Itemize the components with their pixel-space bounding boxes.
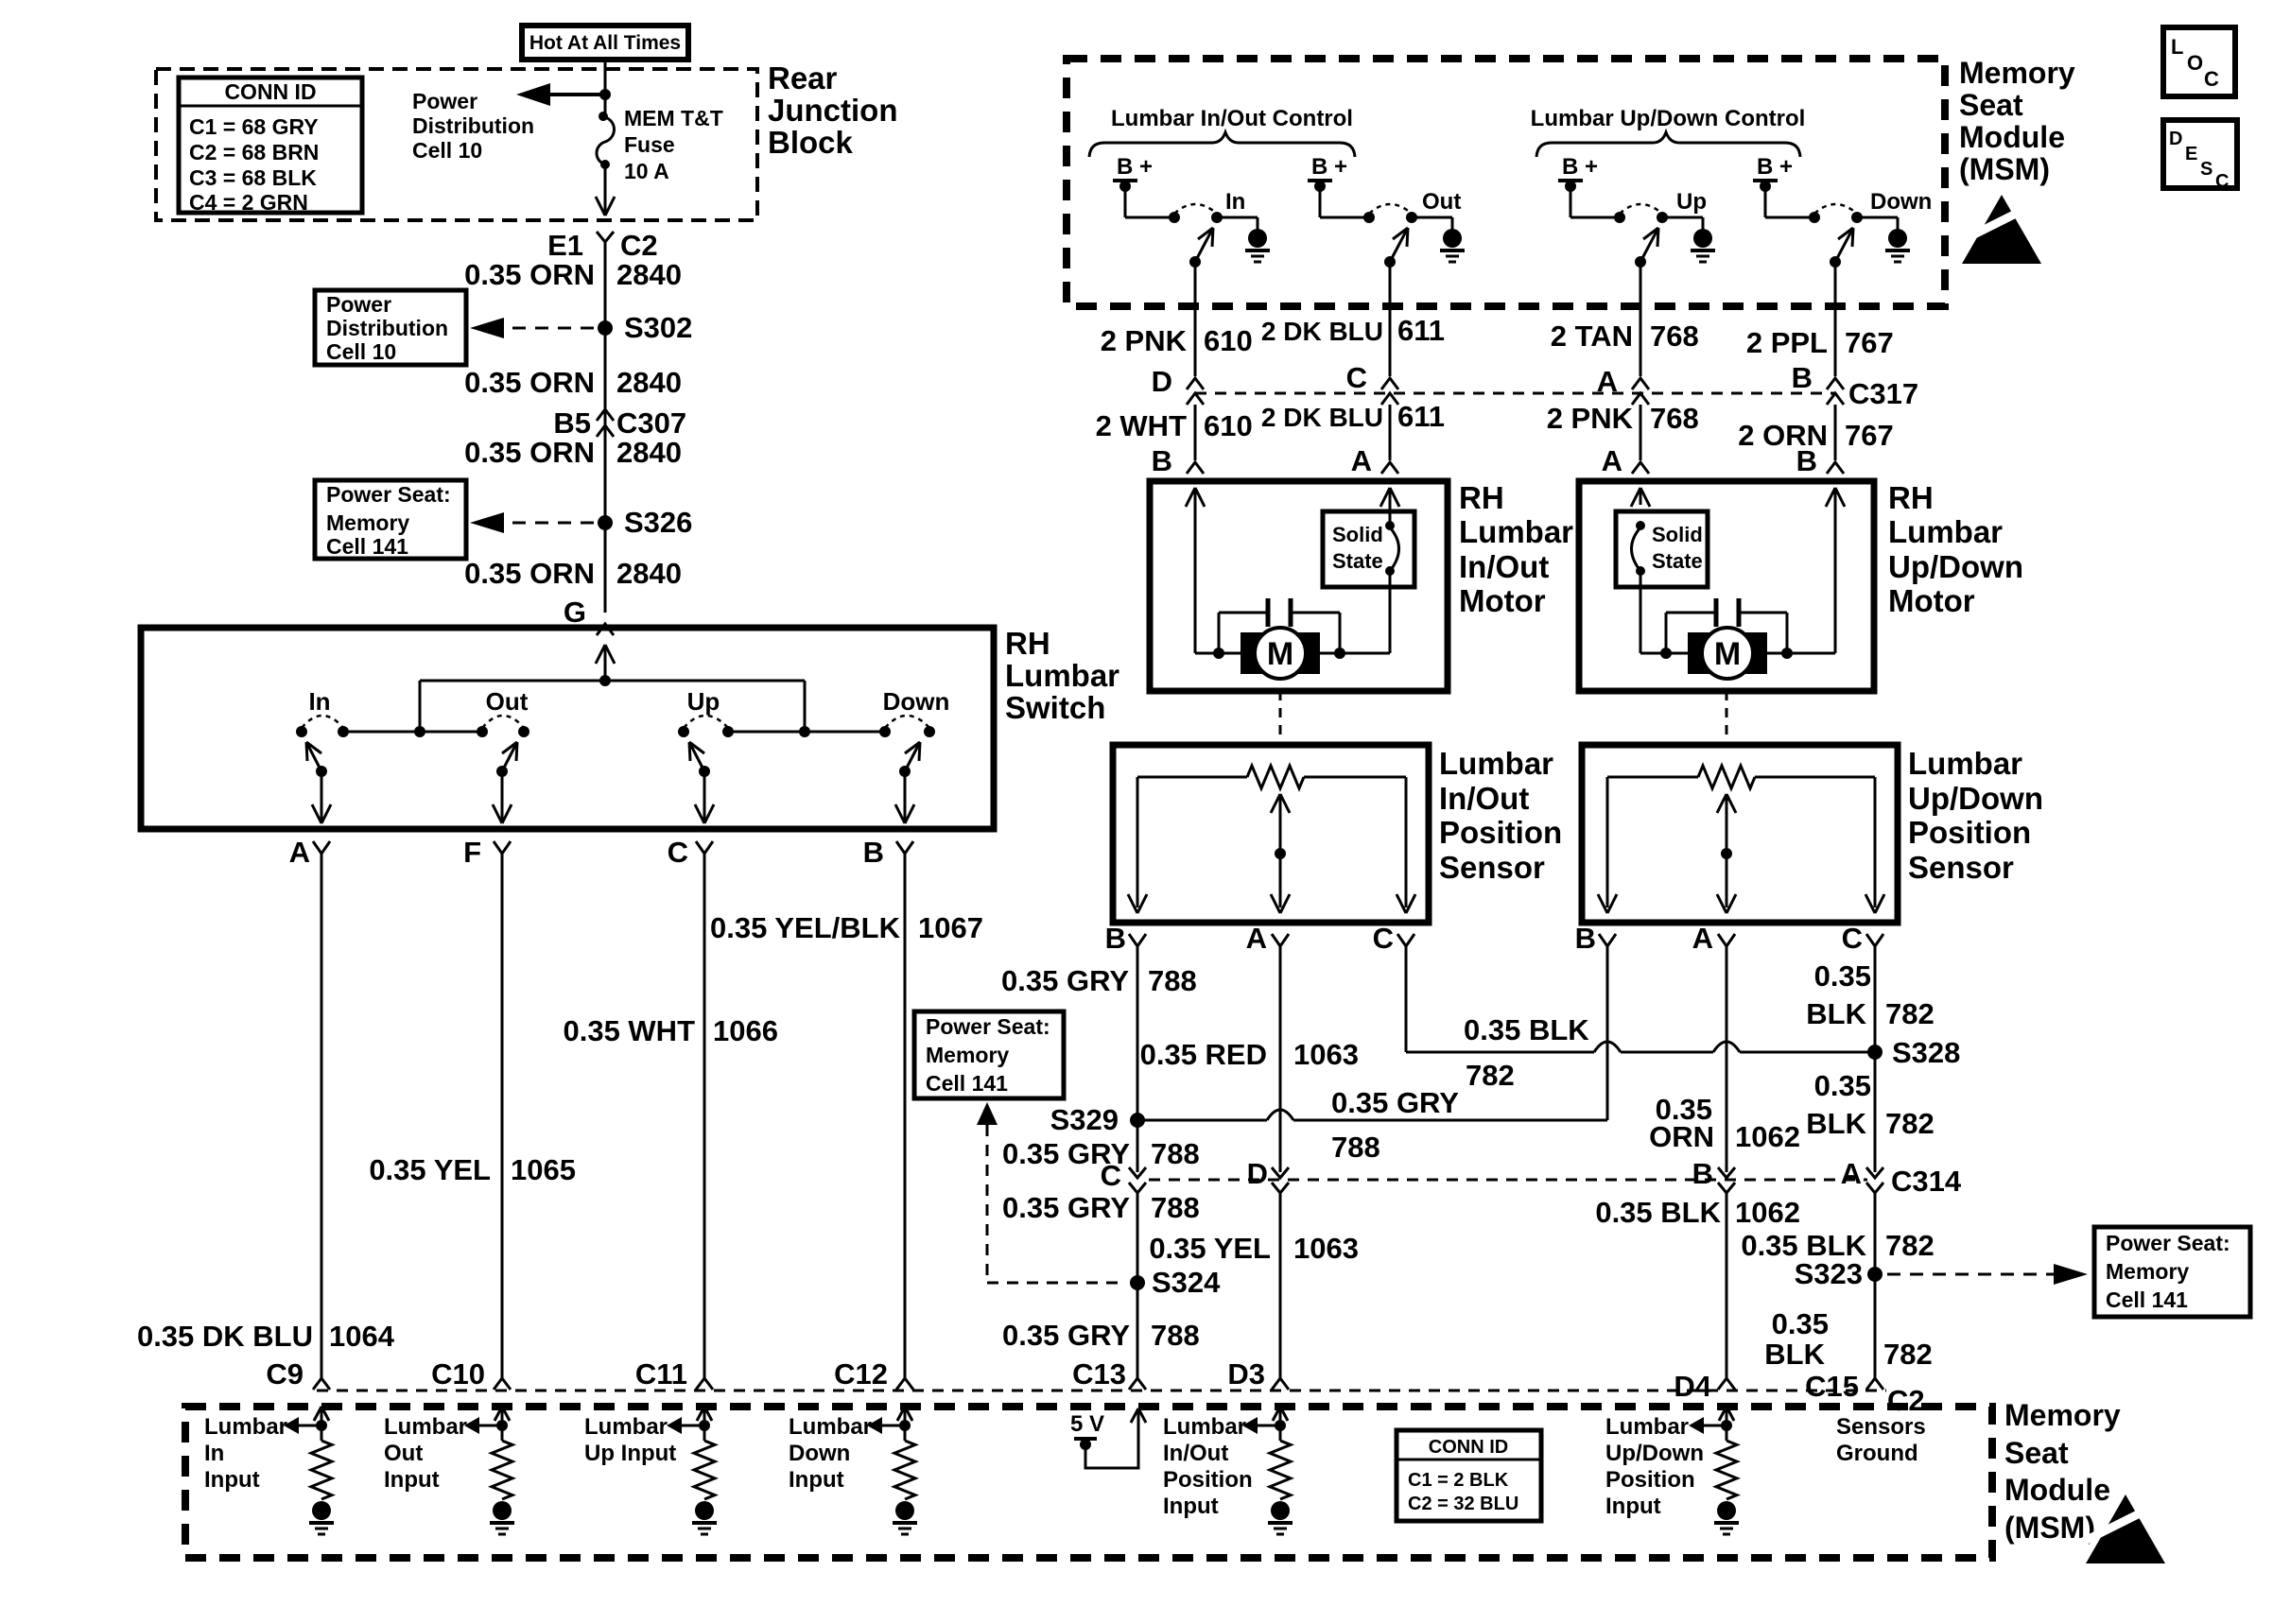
wire C 0.35 GRY 788 below C314 bbox=[1136, 1193, 1139, 1378]
svg-text:Down: Down bbox=[1870, 189, 1932, 215]
svg-text:B +: B + bbox=[1562, 154, 1598, 180]
svg-text:Up/Down: Up/Down bbox=[1888, 549, 2023, 584]
switch Out in memory seat module bbox=[1363, 212, 1375, 223]
svg-text:0.35 GRY: 0.35 GRY bbox=[1002, 1191, 1130, 1224]
svg-text:G: G bbox=[564, 596, 586, 629]
wire D to motor pin B bbox=[1194, 405, 1197, 460]
svg-text:E1: E1 bbox=[547, 229, 583, 262]
svg-text:(MSM): (MSM) bbox=[1959, 152, 2050, 186]
ground for Up switch bbox=[1693, 229, 1712, 248]
svg-text:782: 782 bbox=[1466, 1059, 1515, 1092]
sensor2 pin A bbox=[1718, 934, 1735, 946]
svg-text:C: C bbox=[1101, 1159, 1121, 1192]
svg-text:0.35 GRY: 0.35 GRY bbox=[1001, 964, 1129, 997]
connector C314 dashed line bbox=[1149, 1179, 1867, 1182]
sensor2 potentiometer bbox=[1607, 776, 1698, 779]
DESC legend box bbox=[2163, 120, 2237, 188]
sensor2 pin B bbox=[1599, 934, 1616, 946]
wire from Hot At All Times down bbox=[604, 60, 607, 115]
lumbar up/down position sensor box bbox=[1582, 745, 1898, 923]
svg-text:768: 768 bbox=[1650, 320, 1699, 353]
svg-text:Position: Position bbox=[1605, 1467, 1695, 1493]
svg-text:Memory: Memory bbox=[326, 510, 409, 535]
svg-text:Out: Out bbox=[384, 1441, 423, 1466]
svg-text:Ground: Ground bbox=[1836, 1441, 1918, 1466]
motor1 input wire A via solid state bbox=[1320, 652, 1390, 655]
svg-text:B +: B + bbox=[1311, 154, 1347, 180]
svg-text:BLK: BLK bbox=[1806, 1107, 1866, 1140]
switch In of RH lumbar switch bbox=[296, 726, 307, 737]
svg-text:Input: Input bbox=[1605, 1494, 1661, 1519]
wire Out output bbox=[1389, 262, 1392, 376]
svg-text:Down: Down bbox=[883, 687, 950, 716]
svg-text:782: 782 bbox=[1883, 1338, 1933, 1371]
motor1 input wire B bbox=[1186, 488, 1195, 507]
connector B5 C307 bbox=[597, 409, 614, 421]
svg-text:1066: 1066 bbox=[713, 1014, 778, 1047]
connector C317 pin A bbox=[1632, 378, 1649, 389]
MSM input at x=957 arrow and resistor bbox=[897, 1407, 905, 1421]
svg-text:B +: B + bbox=[1757, 154, 1793, 180]
svg-text:0.35 RED: 0.35 RED bbox=[1140, 1038, 1267, 1071]
svg-text:C: C bbox=[1842, 922, 1863, 955]
connector C314 pin C bbox=[1129, 1167, 1146, 1178]
svg-text:C15: C15 bbox=[1805, 1370, 1859, 1403]
svg-text:Position: Position bbox=[1908, 815, 2031, 850]
svg-text:Switch: Switch bbox=[1005, 690, 1105, 725]
svg-text:A: A bbox=[1692, 922, 1713, 955]
svg-text:Lumbar: Lumbar bbox=[204, 1414, 287, 1440]
svg-text:Sensors: Sensors bbox=[1836, 1414, 1926, 1440]
connector id table CONN ID (rear junction block) bbox=[179, 78, 362, 213]
svg-text:788: 788 bbox=[1151, 1191, 1200, 1224]
connector C317 pin D bbox=[1187, 378, 1204, 389]
svg-text:0.35 ORN: 0.35 ORN bbox=[464, 366, 595, 399]
svg-text:2 PNK: 2 PNK bbox=[1547, 402, 1634, 435]
switch arm In bbox=[1189, 256, 1201, 268]
svg-text:Block: Block bbox=[768, 125, 854, 160]
svg-text:767: 767 bbox=[1845, 326, 1894, 359]
svg-text:S302: S302 bbox=[624, 311, 692, 344]
svg-text:A: A bbox=[1351, 444, 1372, 477]
svg-text:B: B bbox=[1152, 444, 1172, 477]
splice S323 bbox=[1867, 1267, 1883, 1282]
svg-text:1064: 1064 bbox=[329, 1320, 395, 1353]
switch Up in memory seat module bbox=[1614, 212, 1625, 223]
switch arm Down bbox=[1830, 256, 1841, 268]
svg-text:Up: Up bbox=[1676, 189, 1707, 215]
connector pin C13 bbox=[1129, 1378, 1146, 1390]
wire 0.35 GRY 788 S329 to sensor2 B bbox=[1137, 1119, 1267, 1122]
svg-text:Up: Up bbox=[687, 687, 720, 716]
svg-text:S324: S324 bbox=[1152, 1266, 1221, 1299]
svg-text:611: 611 bbox=[1397, 314, 1445, 347]
svg-text:782: 782 bbox=[1885, 1229, 1935, 1262]
wire Up output bbox=[1640, 262, 1642, 376]
reference box Power Seat Memory Cell 141 (right) bbox=[2094, 1227, 2250, 1317]
sensor1 potentiometer bbox=[1137, 776, 1247, 779]
svg-text:S326: S326 bbox=[624, 506, 692, 539]
wire sensor2 A 0.35 ORN 1062 bbox=[1726, 946, 1728, 1172]
wire 0.35 ORN 2840 segment 1 bbox=[604, 242, 607, 613]
svg-text:0.35 BLK: 0.35 BLK bbox=[1595, 1196, 1721, 1229]
connector pin D3 bbox=[1272, 1378, 1289, 1390]
svg-text:0.35: 0.35 bbox=[1814, 1069, 1871, 1102]
solid state switch box motor1 bbox=[1323, 511, 1414, 587]
connector pin C10 bbox=[494, 1378, 511, 1390]
MSM input D4 Lumbar Up/Down Position Input bbox=[1719, 1407, 1726, 1421]
svg-text:C: C bbox=[2204, 67, 2219, 91]
svg-text:C9: C9 bbox=[266, 1357, 304, 1391]
svg-text:1063: 1063 bbox=[1293, 1038, 1359, 1071]
svg-text:Module: Module bbox=[2004, 1473, 2110, 1507]
svg-text:C11: C11 bbox=[635, 1357, 687, 1391]
svg-text:Power Seat:: Power Seat: bbox=[2106, 1231, 2230, 1255]
svg-text:Seat: Seat bbox=[2004, 1436, 2069, 1470]
lumbar in/out position sensor box bbox=[1113, 745, 1429, 923]
svg-text:Motor: Motor bbox=[1459, 583, 1546, 618]
RH lumbar in/out motor box bbox=[1150, 481, 1448, 691]
svg-text:D: D bbox=[1247, 1157, 1268, 1190]
wire sensor1 A 0.35 RED 1063 bbox=[1279, 946, 1282, 1172]
svg-text:MEM T&T: MEM T&T bbox=[624, 106, 723, 130]
svg-text:0.35 WHT: 0.35 WHT bbox=[563, 1014, 695, 1047]
svg-text:610: 610 bbox=[1204, 324, 1253, 357]
sensor1 pin C bbox=[1397, 934, 1414, 946]
svg-text:Lumbar In/Out Control: Lumbar In/Out Control bbox=[1111, 106, 1353, 131]
junction dots on bus bbox=[414, 726, 425, 737]
svg-text:C317: C317 bbox=[1848, 377, 1918, 410]
reference box Power Distribution Cell 10 bbox=[315, 290, 466, 365]
svg-text:State: State bbox=[1332, 549, 1383, 573]
wire B 0.35 BLK 1062 to D4 bbox=[1726, 1193, 1728, 1378]
svg-text:Out: Out bbox=[486, 687, 529, 716]
svg-text:788: 788 bbox=[1151, 1319, 1200, 1352]
svg-text:In: In bbox=[204, 1441, 224, 1466]
svg-text:Sensor: Sensor bbox=[1908, 850, 2014, 885]
svg-text:Up/Down: Up/Down bbox=[1908, 781, 2043, 816]
svg-text:0.35 ORN: 0.35 ORN bbox=[464, 258, 595, 291]
power label box Hot At All Times bbox=[522, 26, 688, 60]
svg-text:O: O bbox=[2187, 51, 2203, 75]
svg-text:Lumbar: Lumbar bbox=[384, 1414, 467, 1440]
splice S324 bbox=[1130, 1275, 1145, 1290]
svg-text:Lumbar: Lumbar bbox=[1439, 746, 1553, 781]
ESD sensitivity symbol (bottom) bbox=[2086, 1494, 2165, 1564]
svg-text:C10: C10 bbox=[431, 1357, 485, 1391]
svg-text:A: A bbox=[1602, 444, 1622, 477]
MSM input at x=745 arrow and resistor bbox=[697, 1407, 704, 1421]
svg-text:Down: Down bbox=[789, 1441, 850, 1466]
svg-text:C314: C314 bbox=[1891, 1165, 1962, 1198]
svg-text:2 TAN: 2 TAN bbox=[1551, 320, 1633, 353]
svg-text:782: 782 bbox=[1885, 1107, 1935, 1140]
svg-text:D: D bbox=[2169, 129, 2182, 149]
svg-text:B: B bbox=[1692, 1157, 1713, 1190]
svg-text:S329: S329 bbox=[1050, 1103, 1119, 1136]
svg-text:M: M bbox=[1714, 636, 1741, 672]
wire sensor1 C to S328 0.35 BLK 782 bbox=[1405, 946, 1408, 1052]
bottom connector dashed line bbox=[317, 1390, 1886, 1392]
svg-text:Junction: Junction bbox=[768, 93, 898, 128]
svg-text:C: C bbox=[1346, 361, 1367, 394]
connector C317 pin B bbox=[1827, 378, 1844, 389]
motor1 wiper dashed wire bbox=[1279, 691, 1282, 745]
connector id table CONN ID (MSM) bbox=[1397, 1430, 1541, 1521]
wire C to motor pin A bbox=[1389, 405, 1392, 460]
svg-text:B: B bbox=[863, 836, 884, 869]
svg-text:Lumbar: Lumbar bbox=[1459, 514, 1573, 549]
connector pin B below switch bbox=[896, 841, 913, 854]
wire contact bus left bbox=[343, 731, 482, 734]
svg-text:C: C bbox=[2215, 171, 2229, 192]
svg-text:A: A bbox=[1597, 365, 1618, 398]
svg-text:Lumbar: Lumbar bbox=[789, 1414, 872, 1440]
sensor1 pin A bbox=[1272, 934, 1289, 946]
wire B to motor pin B bbox=[1834, 405, 1837, 460]
connector pin F below switch bbox=[494, 841, 511, 854]
svg-text:Input: Input bbox=[1163, 1494, 1219, 1519]
wire A to motor pin A bbox=[1640, 405, 1642, 460]
RH lumbar switch box bbox=[141, 628, 994, 829]
svg-text:Memory: Memory bbox=[2106, 1259, 2189, 1284]
svg-text:Position: Position bbox=[1163, 1467, 1253, 1493]
svg-text:10 A: 10 A bbox=[624, 159, 669, 183]
ground for Out switch bbox=[1443, 229, 1462, 248]
svg-text:Module: Module bbox=[1959, 120, 2065, 154]
svg-text:Cell 141: Cell 141 bbox=[326, 534, 408, 559]
svg-text:Rear: Rear bbox=[768, 60, 838, 95]
svg-text:2 DK BLU: 2 DK BLU bbox=[1261, 403, 1383, 432]
svg-text:1062: 1062 bbox=[1735, 1120, 1800, 1153]
svg-text:CONN ID: CONN ID bbox=[1429, 1437, 1508, 1458]
MSM input at x=340 arrow and resistor bbox=[314, 1407, 321, 1421]
svg-text:Input: Input bbox=[204, 1467, 260, 1493]
switch Down of RH lumbar switch bbox=[879, 726, 891, 737]
svg-text:C3 = 68 BLK: C3 = 68 BLK bbox=[189, 165, 317, 190]
svg-text:A: A bbox=[289, 836, 310, 869]
svg-text:0.35 YEL/BLK: 0.35 YEL/BLK bbox=[710, 911, 901, 944]
sensor2 pin C bbox=[1866, 934, 1883, 946]
switch Out of RH lumbar switch bbox=[477, 726, 488, 737]
LOC legend box bbox=[2163, 27, 2235, 96]
connector pin D4 bbox=[1718, 1378, 1735, 1390]
svg-text:768: 768 bbox=[1650, 402, 1699, 435]
wire A 0.35 BLK 782 to C15 bbox=[1874, 1193, 1877, 1378]
svg-text:Lumbar: Lumbar bbox=[584, 1414, 668, 1440]
svg-text:Distribution: Distribution bbox=[326, 316, 448, 340]
svg-text:CONN ID: CONN ID bbox=[224, 79, 316, 104]
svg-text:RH: RH bbox=[1888, 480, 1934, 515]
fuse MEM T&T Fuse 10 A bbox=[599, 112, 608, 121]
svg-text:1067: 1067 bbox=[918, 911, 983, 944]
svg-text:Power: Power bbox=[412, 89, 477, 113]
svg-text:B: B bbox=[1575, 922, 1596, 955]
svg-text:1062: 1062 bbox=[1735, 1196, 1800, 1229]
svg-text:BLK: BLK bbox=[1806, 997, 1866, 1030]
connector pin C11 bbox=[696, 1378, 713, 1390]
connector E1 C2 bbox=[597, 232, 614, 242]
svg-text:B: B bbox=[1792, 361, 1813, 394]
svg-text:610: 610 bbox=[1204, 409, 1253, 442]
svg-text:C307: C307 bbox=[616, 406, 686, 440]
connector C314 pin B bbox=[1718, 1167, 1735, 1178]
svg-text:C1 = 68 GRY: C1 = 68 GRY bbox=[189, 114, 319, 139]
svg-text:2 WHT: 2 WHT bbox=[1096, 409, 1188, 442]
svg-text:Memory: Memory bbox=[2004, 1398, 2121, 1432]
svg-text:B5: B5 bbox=[553, 406, 591, 440]
svg-text:B: B bbox=[1796, 444, 1817, 477]
MSM input D3 Lumbar In/Out Position Input bbox=[1273, 1407, 1280, 1421]
wire C switch to C11 0.35 WHT 1066 bbox=[703, 854, 706, 1378]
svg-text:D: D bbox=[1152, 365, 1172, 398]
svg-text:In: In bbox=[308, 687, 330, 716]
svg-text:Input: Input bbox=[384, 1467, 440, 1493]
svg-text:In/Out: In/Out bbox=[1459, 549, 1549, 584]
svg-text:1065: 1065 bbox=[511, 1153, 576, 1186]
wire sensor1 B 0.35 GRY 788 to C13 bbox=[1136, 946, 1139, 1172]
svg-text:D4: D4 bbox=[1674, 1370, 1711, 1403]
connector C314 pin D bbox=[1272, 1167, 1289, 1178]
svg-text:S328: S328 bbox=[1892, 1036, 1960, 1069]
RH lumbar up/down motor box bbox=[1579, 481, 1874, 691]
svg-text:Power Seat:: Power Seat: bbox=[326, 482, 451, 507]
svg-text:C12: C12 bbox=[834, 1357, 888, 1391]
svg-text:S: S bbox=[2200, 159, 2212, 180]
svg-text:M: M bbox=[1267, 636, 1293, 672]
wire In output bbox=[1194, 262, 1197, 376]
motor2 wiper dashed wire bbox=[1726, 691, 1728, 745]
svg-text:C: C bbox=[668, 836, 688, 869]
svg-text:2840: 2840 bbox=[616, 436, 682, 469]
motor2 input wire A via solid state bbox=[1631, 488, 1640, 507]
svg-text:State: State bbox=[1652, 549, 1703, 573]
motor2 capacitor branch bbox=[1665, 613, 1668, 653]
wire sensor2 C 0.35 BLK 782 bbox=[1874, 946, 1877, 1172]
svg-text:0.35 YEL: 0.35 YEL bbox=[1149, 1232, 1271, 1265]
svg-text:Seat: Seat bbox=[1959, 88, 2023, 122]
svg-text:1063: 1063 bbox=[1293, 1232, 1359, 1265]
svg-text:Cell 141: Cell 141 bbox=[926, 1071, 1008, 1096]
svg-text:S323: S323 bbox=[1795, 1257, 1863, 1290]
ESD sensitivity symbol (top) bbox=[1962, 195, 2041, 264]
svg-text:0.35: 0.35 bbox=[1772, 1307, 1829, 1340]
svg-text:2 DK BLU: 2 DK BLU bbox=[1261, 317, 1383, 346]
wire Down output bbox=[1834, 262, 1837, 376]
svg-text:0.35 DK BLU: 0.35 DK BLU bbox=[137, 1320, 313, 1353]
svg-text:Cell 10: Cell 10 bbox=[412, 138, 482, 163]
arrow to power distribution bbox=[599, 89, 611, 100]
connector pin A below switch bbox=[313, 841, 330, 854]
svg-text:Memory: Memory bbox=[1959, 56, 2075, 90]
svg-text:0.35 ORN: 0.35 ORN bbox=[464, 436, 595, 469]
wire F switch to C10 0.35 YEL 1065 bbox=[501, 854, 504, 1378]
svg-text:788: 788 bbox=[1331, 1131, 1380, 1164]
svg-text:Cell 141: Cell 141 bbox=[2106, 1287, 2188, 1312]
svg-text:C1 = 2 BLK: C1 = 2 BLK bbox=[1408, 1470, 1509, 1491]
rear junction block dashed box bbox=[156, 69, 757, 220]
splice S326 bbox=[598, 515, 613, 530]
MSM input at x=531 arrow and resistor bbox=[495, 1407, 502, 1421]
wire sensor2 B down bbox=[1606, 946, 1609, 1120]
svg-text:Fuse: Fuse bbox=[624, 132, 675, 157]
svg-text:Lumbar: Lumbar bbox=[1163, 1414, 1246, 1440]
connector pin C9 bbox=[313, 1378, 330, 1390]
svg-text:Sensor: Sensor bbox=[1439, 850, 1545, 885]
svg-text:B +: B + bbox=[1117, 154, 1153, 180]
svg-text:F: F bbox=[463, 836, 481, 869]
svg-text:Out: Out bbox=[1422, 189, 1461, 215]
sensor2 wiper bbox=[1717, 794, 1726, 813]
svg-text:C2: C2 bbox=[620, 229, 658, 262]
svg-text:A: A bbox=[1841, 1157, 1862, 1190]
reference box Power Seat Memory Cell 141 bbox=[315, 480, 466, 559]
switch Up of RH lumbar switch bbox=[678, 726, 689, 737]
svg-text:Cell 10: Cell 10 bbox=[326, 339, 396, 364]
solid state switch box motor2 bbox=[1616, 511, 1708, 587]
switch arm Out bbox=[1384, 256, 1396, 268]
svg-text:Lumbar Up/Down Control: Lumbar Up/Down Control bbox=[1531, 106, 1806, 131]
svg-text:Solid: Solid bbox=[1652, 523, 1703, 546]
wire fuse to connector C2 bbox=[604, 164, 607, 214]
svg-text:BLK: BLK bbox=[1764, 1338, 1825, 1371]
svg-text:B: B bbox=[1105, 922, 1126, 955]
svg-text:Up/Down: Up/Down bbox=[1605, 1441, 1704, 1466]
svg-text:E: E bbox=[2185, 144, 2197, 164]
connector C317 pin C bbox=[1381, 378, 1398, 389]
svg-text:0.35 GRY: 0.35 GRY bbox=[1331, 1086, 1459, 1119]
connector pin C below switch bbox=[696, 841, 713, 854]
svg-text:Solid: Solid bbox=[1332, 523, 1383, 546]
splice S302 bbox=[598, 320, 613, 336]
svg-text:Hot At All Times: Hot At All Times bbox=[529, 32, 681, 54]
motor1 capacitor branch bbox=[1218, 613, 1221, 653]
switch arm Up bbox=[1635, 256, 1646, 268]
dashed link to S324 bbox=[977, 1102, 998, 1125]
svg-text:In/Out: In/Out bbox=[1439, 781, 1529, 816]
svg-text:611: 611 bbox=[1397, 400, 1445, 433]
switch Down in memory seat module bbox=[1809, 212, 1820, 223]
switch supply bus bbox=[420, 680, 805, 682]
splice S329 bbox=[1130, 1113, 1145, 1128]
connector C317 dashed line bbox=[1195, 392, 1835, 395]
wire B switch to C12 0.35 YEL/BLK 1067 bbox=[904, 854, 907, 1378]
svg-text:2840: 2840 bbox=[616, 557, 682, 590]
svg-text:Lumbar: Lumbar bbox=[1005, 658, 1119, 693]
connector pin C12 bbox=[896, 1378, 913, 1390]
wire D 0.35 YEL 1063 to D3 bbox=[1279, 1193, 1282, 1378]
sensor1 wiper bbox=[1271, 794, 1280, 813]
svg-text:Position: Position bbox=[1439, 815, 1562, 850]
svg-text:C2: C2 bbox=[1887, 1384, 1925, 1417]
svg-text:0.35 ORN: 0.35 ORN bbox=[464, 557, 595, 590]
ground for Down switch bbox=[1888, 229, 1907, 248]
svg-text:L: L bbox=[2171, 35, 2183, 59]
svg-text:767: 767 bbox=[1845, 419, 1894, 452]
svg-text:C: C bbox=[1373, 922, 1394, 955]
svg-text:Lumbar: Lumbar bbox=[1605, 1414, 1689, 1440]
svg-text:2840: 2840 bbox=[616, 366, 682, 399]
svg-text:782: 782 bbox=[1885, 997, 1935, 1030]
svg-text:788: 788 bbox=[1148, 964, 1197, 997]
svg-text:C2 = 68 BRN: C2 = 68 BRN bbox=[189, 140, 319, 164]
svg-text:Power Seat:: Power Seat: bbox=[926, 1014, 1050, 1039]
svg-text:5 V: 5 V bbox=[1070, 1411, 1104, 1437]
svg-text:0.35: 0.35 bbox=[1814, 959, 1871, 993]
svg-text:ORN: ORN bbox=[1649, 1120, 1714, 1153]
svg-text:RH: RH bbox=[1459, 480, 1504, 515]
wire contact bus right bbox=[728, 731, 885, 734]
